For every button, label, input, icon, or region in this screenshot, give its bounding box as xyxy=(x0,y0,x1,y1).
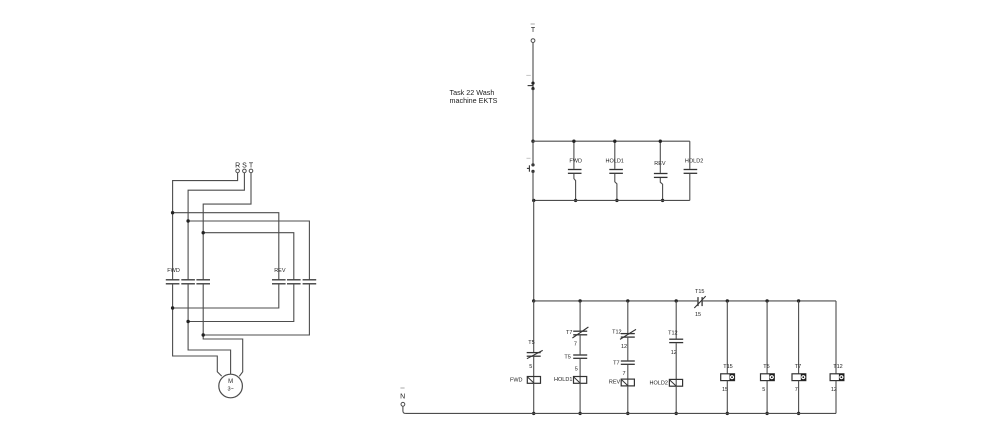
contactor REV pole 2 xyxy=(287,280,301,284)
svg-text:HOLD2: HOLD2 xyxy=(685,158,703,164)
timer coil T12 xyxy=(830,374,844,381)
timer coil T7 label xyxy=(795,364,801,370)
timer coil T15 xyxy=(721,374,735,381)
wire rail to HOLD1 contact xyxy=(614,141,616,169)
terminal N xyxy=(401,402,405,406)
wire phase R to FWD contact 1 xyxy=(173,173,238,279)
timer contact T5 label (branch2) xyxy=(564,355,570,361)
svg-text:FWD: FWD xyxy=(167,268,180,274)
timer contact T5 pin label 5 (branch1) xyxy=(529,364,532,370)
wire branch2 rail to T7 contact xyxy=(579,301,581,331)
node junction HOLD1 branch bottom xyxy=(615,199,618,202)
svg-text:T5: T5 xyxy=(564,355,570,361)
timer contact T7 (NC, branch2) xyxy=(572,327,588,338)
wire HOLD1 coil to N rail xyxy=(579,383,581,413)
svg-text:machine EKTS: machine EKTS xyxy=(450,96,498,105)
wire T7 coil to N rail xyxy=(798,381,800,414)
node junction S branch xyxy=(186,219,189,222)
wire REV coil to N rail xyxy=(627,386,629,414)
wire HOLD1 contact to bottom rail xyxy=(615,174,617,201)
timer contact T5 pin label 5 (branch2) xyxy=(575,366,578,372)
coil FWD xyxy=(527,377,540,384)
wire bottom rail of contact bank xyxy=(534,199,690,201)
node junction V xyxy=(186,320,189,323)
timer coil T5 pin label 5 xyxy=(762,387,765,393)
wire branch1 rail to T5 contact xyxy=(533,301,535,352)
node junction HOLD2 coil bottom xyxy=(675,412,678,415)
wire phase S to FWD contact 2 xyxy=(188,173,244,279)
timer contact T7 (NO, branch3) xyxy=(621,361,635,364)
wire T12 to T7 contact (branch3) xyxy=(627,338,629,361)
node junction branch2 top xyxy=(578,299,581,302)
wire T branch to REV contact 2 xyxy=(203,233,294,280)
node junction REV coil bottom xyxy=(626,412,629,415)
contact REV label xyxy=(654,161,666,167)
svg-text:T7: T7 xyxy=(566,330,572,336)
svg-text:7: 7 xyxy=(622,371,625,377)
wire rail corner to HOLD2 contact xyxy=(689,141,691,169)
node T phase label xyxy=(531,24,536,34)
wire T12 contact to HOLD2 coil xyxy=(675,343,677,386)
wire rail to T5 coil xyxy=(766,301,768,374)
timer contact T12 (NO, branch4) xyxy=(669,339,683,342)
wire stop button to top rail xyxy=(532,89,534,142)
timer coil T12 label xyxy=(833,364,842,370)
svg-text:5: 5 xyxy=(529,364,532,370)
timer contact T5 label (branch1) xyxy=(528,340,534,346)
wire T5 contact to HOLD1 coil xyxy=(579,359,581,383)
node junction T5 coil bottom xyxy=(765,412,768,415)
node junction timer branch T15 top xyxy=(726,299,729,302)
node junction timer branch T7 top xyxy=(797,299,800,302)
wire T7 contact to REV coil xyxy=(627,365,629,386)
contact FWD (NO aux) xyxy=(568,170,582,174)
contactor REV pole 3 xyxy=(303,280,317,284)
wire rail corner to T12 coil xyxy=(835,301,837,374)
wire bottom rail N xyxy=(405,412,836,414)
wire FWD contact to bottom rail xyxy=(574,174,576,201)
svg-text:T5: T5 xyxy=(763,364,769,370)
timer coil T7 xyxy=(792,374,806,381)
timer contact T15 label xyxy=(695,289,704,295)
timer contact T7 pin label 7 (branch3) xyxy=(622,371,625,377)
wire rail to T15 coil xyxy=(726,301,728,374)
wire FWD coil to N rail xyxy=(533,383,535,413)
svg-text:5: 5 xyxy=(575,366,578,372)
svg-text:7: 7 xyxy=(795,387,798,393)
node junction HOLD1 coil bottom xyxy=(578,412,581,415)
svg-text:T5: T5 xyxy=(528,340,534,346)
timer coil T15 pin label 15 xyxy=(722,387,728,393)
wire rail to FWD contact xyxy=(573,141,575,169)
wire HOLD2 contact to bottom rail corner xyxy=(689,174,691,201)
svg-text:HOLD2: HOLD2 xyxy=(650,380,668,386)
timer contact T12 label (branch4) xyxy=(668,331,677,337)
timer contact T15 pin label 15 xyxy=(695,312,701,318)
contact FWD label xyxy=(569,158,582,164)
node junction T15 coil bottom xyxy=(726,412,729,415)
svg-text:T12: T12 xyxy=(612,329,621,335)
wire branch4 rail to T12 contact xyxy=(675,301,677,339)
node junction bank bottom left xyxy=(532,199,535,202)
button STOP (NC) xyxy=(526,75,534,90)
svg-text:T15: T15 xyxy=(695,289,704,295)
svg-text:S: S xyxy=(242,162,247,169)
contactor REV pole 1 xyxy=(272,280,286,284)
wire start button rail segment xyxy=(532,141,534,200)
timer contact T12 pin label 12 (branch3) xyxy=(621,344,627,350)
wire link FWD2-REV2 bottom xyxy=(188,284,294,321)
node junction top rail left xyxy=(531,140,534,143)
node T label xyxy=(249,162,254,169)
coil HOLD1 xyxy=(574,377,587,384)
node junction T7 coil bottom xyxy=(797,412,800,415)
wire FWD2 bottom to motor V xyxy=(188,284,231,374)
node junction W xyxy=(202,333,205,336)
svg-text:HOLD1: HOLD1 xyxy=(554,377,572,383)
contactor FWD pole 1 xyxy=(166,280,180,284)
coil HOLD1 label xyxy=(554,377,572,383)
wire link FWD3-REV3 bottom xyxy=(203,284,309,335)
wire phase T to FWD contact 3 xyxy=(203,173,251,279)
svg-text:5: 5 xyxy=(762,387,765,393)
timer contact T5 (NC, branch1) xyxy=(527,350,543,358)
wire link FWD1-REV1 bottom xyxy=(173,284,279,308)
node junction HOLD1 branch top xyxy=(613,140,616,143)
contactor FWD pole 3 xyxy=(196,280,210,284)
node junction branch3 top xyxy=(626,299,629,302)
svg-text:T7: T7 xyxy=(613,361,619,367)
svg-text:FWD: FWD xyxy=(569,158,582,164)
contact HOLD2 label xyxy=(685,158,703,164)
wire rail to T7 coil xyxy=(798,301,800,374)
terminal T xyxy=(249,169,253,173)
wire lower rail right of T15 xyxy=(703,300,836,302)
contactor FWD label xyxy=(167,268,180,274)
svg-text:12: 12 xyxy=(621,344,627,350)
wire T5 coil to N rail xyxy=(766,381,768,414)
node junction REV branch top xyxy=(659,140,662,143)
svg-text:N: N xyxy=(400,393,405,400)
node junction branch4 top xyxy=(675,299,678,302)
contact REV (NO aux) xyxy=(654,174,668,178)
node junction REV branch bottom xyxy=(661,199,664,202)
timer contact T7 label (branch2) xyxy=(566,330,572,336)
node junction FWD branch top xyxy=(572,140,575,143)
timer coil T5 label xyxy=(763,364,769,370)
wire rail to REV contact xyxy=(659,141,661,173)
wire top rail of contact bank xyxy=(533,140,690,142)
contactor FWD pole 2 xyxy=(181,280,195,284)
svg-text:T15: T15 xyxy=(723,364,732,370)
timer coil T5 xyxy=(761,374,775,381)
button START (NO) xyxy=(527,158,535,173)
timer contact T5 (NO, branch2) xyxy=(573,355,587,358)
motor M 3-phase xyxy=(219,374,243,398)
svg-text:T12: T12 xyxy=(668,331,677,337)
wire branch3 rail to T12 contact xyxy=(627,301,629,333)
svg-text:7: 7 xyxy=(574,341,577,347)
node S label xyxy=(242,162,247,169)
coil REV xyxy=(621,379,634,386)
contact HOLD2 (NO aux) xyxy=(684,170,698,174)
wire FWD1 bottom to motor U xyxy=(173,284,222,376)
node N label xyxy=(400,388,405,400)
wire lower rail left of T15 xyxy=(534,300,698,302)
wire FWD3 bottom to motor W xyxy=(203,284,243,376)
node junction lower rail left xyxy=(532,299,535,302)
svg-text:FWD: FWD xyxy=(510,378,523,384)
wire T15 coil to N rail xyxy=(726,381,728,414)
wire REV contact to bottom rail xyxy=(660,178,662,200)
node junction T branch xyxy=(202,231,205,234)
coil HOLD2 label xyxy=(650,380,668,386)
coil HOLD2 xyxy=(669,379,682,386)
svg-text:T: T xyxy=(531,27,536,34)
wire S branch to REV contact 3 xyxy=(188,221,309,279)
terminal T phase xyxy=(531,39,535,43)
contact HOLD1 (NO aux) xyxy=(609,170,623,174)
timer contact T7 label (branch3) xyxy=(613,361,619,367)
timer coil T15 label xyxy=(723,364,732,370)
terminal R xyxy=(236,169,240,173)
wire T12 coil to N rail corner xyxy=(835,381,837,414)
node junction FWD coil bottom xyxy=(532,412,535,415)
node junction timer branch T5 top xyxy=(765,299,768,302)
wire main vertical to lower rail xyxy=(533,200,535,301)
coil FWD label xyxy=(510,378,523,384)
node R label xyxy=(235,162,240,169)
timer contact T7 pin label 7 (branch2) xyxy=(574,341,577,347)
svg-text:T: T xyxy=(249,162,254,169)
svg-text:R: R xyxy=(235,162,240,169)
coil REV label xyxy=(609,380,621,386)
wire T to stop button xyxy=(532,43,534,83)
timer coil T12 pin label 12 xyxy=(831,387,837,393)
timer coil T7 pin label 7 xyxy=(795,387,798,393)
svg-text:REV: REV xyxy=(274,268,286,274)
terminal S xyxy=(243,169,247,173)
contactor REV label xyxy=(274,268,286,274)
svg-text:15: 15 xyxy=(695,312,701,318)
svg-text:M: M xyxy=(228,379,233,385)
annotation Task text xyxy=(450,88,498,105)
timer contact T12 pin label 12 (branch4) xyxy=(671,350,677,356)
wire N terminal to bottom rail xyxy=(403,406,406,413)
contact HOLD1 label xyxy=(606,158,624,164)
svg-text:T7: T7 xyxy=(795,364,801,370)
timer contact T15 (NC in rail) xyxy=(694,296,705,308)
node junction FWD branch bottom xyxy=(574,199,577,202)
timer contact T12 (NC, branch3) xyxy=(620,329,636,339)
node junction U xyxy=(171,306,174,309)
svg-text:REV: REV xyxy=(609,380,621,386)
svg-text:T12: T12 xyxy=(833,364,842,370)
wire T7 to T5 contact (branch2) xyxy=(579,335,581,354)
node junction R branch xyxy=(171,211,174,214)
wire HOLD2 coil to N rail xyxy=(675,386,677,413)
timer contact T12 label (branch3) xyxy=(612,329,621,335)
wire R branch to REV contact 1 xyxy=(173,213,279,280)
wire T5 contact to FWD coil xyxy=(533,357,535,384)
svg-text:3~: 3~ xyxy=(227,387,233,393)
